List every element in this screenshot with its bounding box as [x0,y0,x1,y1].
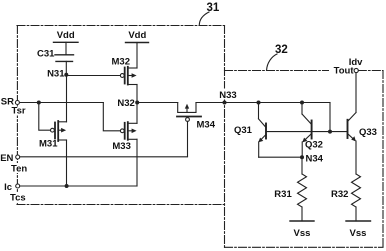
wire EN line [20,156,188,158]
svg-text:N34: N34 [306,154,324,165]
transistor M33 [120,129,124,133]
SR terminal [15,101,19,105]
ground Vss (left) [290,220,314,222]
Ic terminal [16,184,20,188]
wire Q31 emitter to N34 [259,156,302,158]
svg-text:Q32: Q32 [305,140,323,151]
box 32 border bottom [225,246,384,248]
svg-text:Vss: Vss [294,228,311,239]
svg-text:Vdd: Vdd [57,30,75,41]
wire Vdd1 to C31 [65,42,67,55]
wire C31 to node N31 [65,61,67,75]
svg-text:N31: N31 [47,69,65,80]
leader line for label 32 [267,54,277,70]
Vdd rail 1 (above C31) [54,41,79,43]
node N32 [135,101,139,105]
node N31 [64,73,68,77]
wire M33 drain up to N32 [136,103,138,124]
svg-text:C31: C31 [37,49,55,60]
wire M31 source down to Ic line [66,140,68,186]
wire M31 gate [39,103,51,131]
box 31/32 shared vertical border [224,26,226,248]
svg-text:32: 32 [275,44,288,56]
svg-text:EN: EN [0,153,13,164]
box 32 border right [382,71,384,248]
box 31 border top [17,25,225,27]
wire M34 drain to node N33 [196,102,225,104]
svg-text:M33: M33 [112,141,130,152]
svg-text:M31: M31 [39,138,58,149]
svg-text:R31: R31 [274,189,292,200]
transistor M32 [120,74,124,78]
svg-text:Ten: Ten [11,164,27,175]
wire SR line [20,102,104,104]
Vdd rail 2 (above M32) [126,42,149,44]
svg-text:31: 31 [207,2,220,14]
box 32 border top [225,70,331,72]
node N34 [300,155,304,159]
wire M34 gate down to EN line [187,121,189,156]
transistor M31 [51,128,55,132]
svg-text:R32: R32 [331,189,348,200]
wire base rail [266,131,348,133]
transistor Q32 [311,121,313,139]
svg-text:Q31: Q31 [234,125,253,136]
box 31 border left [16,26,18,205]
wire corner down to base rail [329,103,331,132]
svg-text:Vdd: Vdd [128,30,146,41]
transistor M34 [178,103,196,113]
junction base rail [328,130,332,134]
wire node N31 to M32 gate [66,75,120,77]
resistor R31 [301,157,303,174]
svg-text:M32: M32 [112,57,130,68]
transistor Q31 [265,124,267,139]
junction SR to M31 gate [37,101,41,105]
svg-text:Tsr: Tsr [12,106,26,117]
Tout terminal [354,68,358,72]
svg-text:N33: N33 [219,90,236,101]
junction Ic to M31 source [65,184,69,188]
EN terminal [16,155,20,159]
transistor Q33 [347,120,349,138]
wire M33 source down to Ic line [136,139,138,186]
svg-text:Q33: Q33 [359,127,377,138]
junction Q32 collector [300,101,304,105]
leader line for label 31 [199,12,209,25]
junction Q31 collector [257,101,261,105]
svg-text:Ic: Ic [4,182,12,193]
text mask rects [11,107,28,116]
svg-text:Tcs: Tcs [10,193,26,204]
svg-text:Vss: Vss [350,228,367,239]
node N33 [223,101,227,105]
svg-text:Tout: Tout [334,66,355,77]
wire N33 into block 32 [225,102,331,104]
wire N32 to M34 [137,102,178,104]
capacitor C31 [55,54,74,56]
ground Vss (right) [346,220,371,222]
svg-text:N32: N32 [117,98,134,109]
wire Vdd2 to M32 drain [136,43,138,69]
wire N31 down to M31 drain (crosses SR wire) [66,76,68,122]
wire Ic line [20,185,137,187]
wire M32 source down to node N32 [136,85,138,103]
resistor R32 [352,174,361,207]
wire SR to M33 gate [103,103,120,131]
svg-text:M34: M34 [197,120,216,131]
box 31 border bottom [17,204,225,206]
